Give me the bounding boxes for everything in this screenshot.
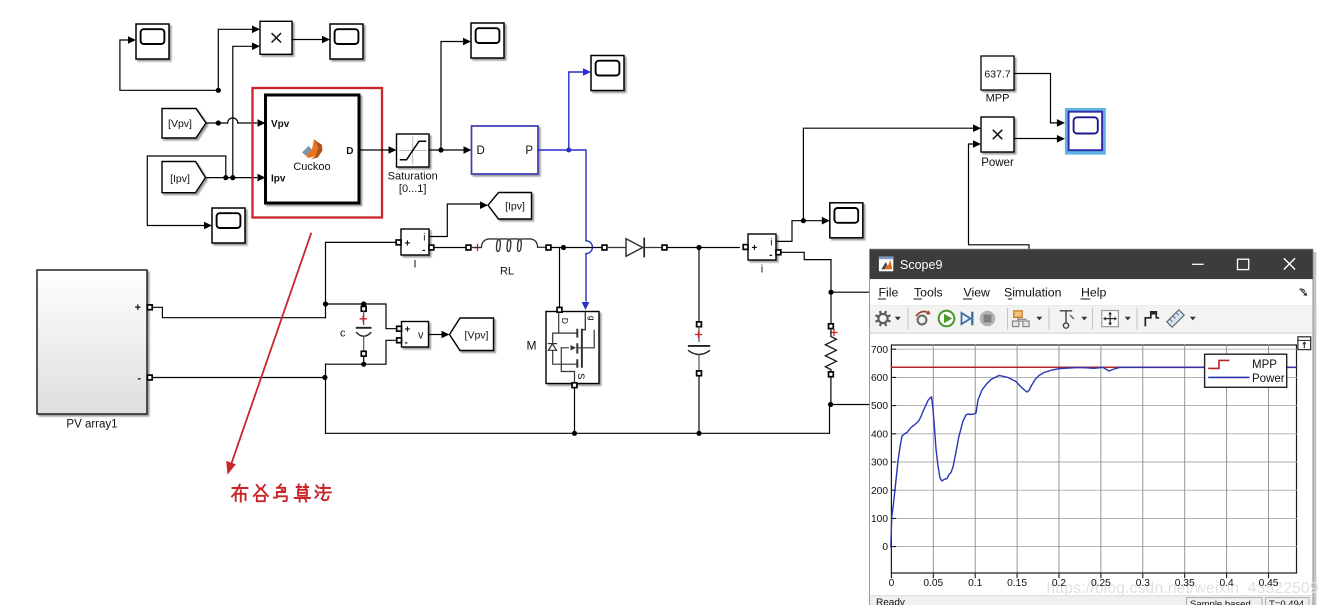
svg-text:i: i: [770, 238, 772, 249]
capacitor c: [363, 304, 365, 306]
wire node down to output capacitor: [698, 248, 700, 322]
svg-text:Ready: Ready: [876, 598, 905, 606]
Scope9 menu bar: [870, 279, 1312, 306]
blue wire P output to gate (with junction): [538, 150, 586, 241]
blue junction node: [566, 148, 571, 153]
wire negative bus down to ground rail: [325, 364, 327, 433]
svg-text:S: S: [575, 373, 586, 379]
svg-text:PV array1: PV array1: [66, 419, 117, 431]
wire duty tap up to scope: [441, 42, 463, 151]
svg-text:Ipv: Ipv: [271, 174, 286, 185]
red annotation arrow (points to Cuckoo algorithm): [230, 234, 311, 467]
red highlight rectangle around Cuckoo block: [253, 88, 383, 218]
wire from node Vpv up to top-left scope: [120, 40, 218, 90]
Scope9 plot panel: [870, 334, 1318, 597]
svg-text:D: D: [346, 146, 353, 157]
From tag [Vpv]: [162, 109, 206, 139]
wire load bottom to ground rail: [830, 405, 831, 434]
wire product output to scope: [292, 39, 322, 41]
x-axis ticks: [891, 573, 1268, 578]
toolbar layout icon: [1014, 311, 1022, 318]
junction node load top: [828, 290, 833, 295]
toolbar trigger icon: [1061, 311, 1072, 323]
svg-text:MPP: MPP: [1252, 359, 1277, 371]
wire [Vpv] to Cuckoo Vpv input (with line hop): [206, 122, 257, 124]
wire Ipv tap to scope (lower-left): [147, 156, 226, 226]
svg-text:400: 400: [871, 429, 888, 440]
wire cap bottom branch to voltage sensor -: [326, 340, 397, 364]
svg-text:0.2: 0.2: [1052, 578, 1066, 589]
PV array1 block: [37, 270, 147, 414]
wire PV+ to input bus: [152, 307, 325, 317]
svg-text:0: 0: [889, 578, 895, 589]
svg-text:[Ipv]: [Ipv]: [505, 201, 525, 213]
saturation block: [397, 134, 430, 167]
svg-text:Sample based: Sample based: [1190, 599, 1251, 605]
junction node cap top: [323, 301, 328, 306]
current measurement block i (output): [748, 234, 776, 260]
wire RL to diode / MOSFET node: [551, 247, 602, 249]
svg-text:D: D: [560, 318, 570, 324]
junction node on Vpv wire: [216, 120, 221, 125]
subsystem block Cuckoo (MATLAB function): [266, 95, 360, 203]
product block Power: [981, 117, 1014, 152]
svg-text:Power: Power: [1252, 373, 1285, 385]
svg-text:100: 100: [871, 514, 888, 525]
display block 637.7 (MPP): [981, 56, 1014, 90]
junction node (Vpv tap): [216, 88, 221, 93]
svg-text:I: I: [413, 259, 416, 271]
PV+ port: [147, 305, 152, 310]
svg-text:D: D: [477, 145, 485, 157]
scope block (PWM scope): [591, 56, 624, 91]
Scope9 title bar: [870, 249, 1313, 279]
wire stub to hidden load measurement lower (behind Scope9): [831, 404, 870, 406]
toolbar stop button: [980, 311, 996, 327]
toolbar run button: [939, 311, 955, 327]
svg-text:[Ipv]: [Ipv]: [170, 173, 190, 185]
y-axis ticks: [891, 349, 895, 546]
svg-text:637.7: 637.7: [984, 69, 1010, 81]
inductor RL (series branch): [434, 247, 466, 249]
svg-text:-: -: [769, 250, 772, 261]
svg-text:v: v: [418, 330, 424, 342]
junction node source/ground: [572, 431, 577, 436]
junction node i-signal: [801, 218, 806, 223]
svg-text:Cuckoo: Cuckoo: [293, 161, 330, 173]
svg-text:M: M: [527, 339, 537, 353]
wire sensor i output to scope and Power: [776, 221, 821, 242]
svg-text:[Vpv]: [Vpv]: [168, 118, 192, 130]
svg-text:Vpv: Vpv: [271, 119, 290, 130]
svg-text:300: 300: [871, 458, 888, 469]
svg-text:Simulation: Simulation: [1004, 286, 1062, 300]
toolbar measurements (ruler) icon: [1167, 310, 1184, 327]
wire cap-top branch to voltage sensor +: [326, 304, 397, 329]
svg-text:T=0.494: T=0.494: [1269, 599, 1304, 605]
diode: [602, 245, 607, 250]
current measurement block I: [401, 229, 429, 255]
MOSFET internal symbol: [553, 313, 577, 365]
toolbar step-forward button: [962, 313, 971, 324]
svg-text:0.05: 0.05: [923, 578, 943, 589]
plot legend: [1205, 354, 1287, 387]
toolbar simulink-block icon: [918, 316, 927, 325]
scope block (Power scope, selected blue): [1065, 108, 1106, 155]
MATLAB logo icon inside Cuckoo: [302, 139, 323, 159]
svg-text:+: +: [752, 243, 758, 254]
Scope9 minimize button: [1193, 263, 1203, 265]
Goto tag [Vpv]: [450, 318, 494, 351]
subsystem block D to P (PWM, blue): [472, 126, 539, 174]
wire sensor - output down to load resistor: [781, 252, 831, 292]
Scope9 title icon: [879, 257, 893, 272]
output capacitor: [697, 322, 702, 327]
wire v output to Goto [Vpv]: [429, 334, 442, 336]
load resistor branch: [830, 292, 832, 324]
svg-text:700: 700: [871, 345, 888, 356]
svg-text:-: -: [422, 245, 425, 256]
scope block (output current scope): [830, 203, 863, 238]
Scope9 close button: [1284, 259, 1294, 269]
junction node output cap top: [696, 245, 701, 250]
Goto tag [Ipv]: [488, 193, 532, 220]
MPP reference curve (red): [891, 366, 1296, 368]
svg-text:Help: Help: [1081, 286, 1106, 300]
toolbar settings gear: [878, 314, 887, 323]
svg-text:View: View: [964, 286, 991, 300]
wire Power output to scope: [1014, 138, 1056, 140]
wire Saturation to D subsystem: [429, 149, 463, 151]
svg-text:i: i: [761, 264, 763, 276]
Scope9 toolbar: [870, 306, 1312, 333]
wire PV- to negative bus: [152, 377, 325, 379]
svg-text:MPP: MPP: [986, 93, 1010, 105]
svg-text:i: i: [423, 233, 425, 244]
svg-text:-: -: [405, 337, 408, 348]
plot axes frame: [891, 345, 1296, 573]
junction nodes on Ipv wire: [223, 175, 228, 180]
wire Cuckoo D output to Saturation: [359, 149, 388, 151]
svg-text:-: -: [137, 373, 141, 385]
svg-text:P: P: [525, 145, 533, 157]
wire diode to output node: [667, 247, 739, 249]
toolbar pan/zoom icon: [1102, 311, 1119, 327]
Power curve (blue): [891, 367, 1296, 546]
scope block (Ipv scope): [212, 208, 245, 243]
toolbar peak-finder icon: [1145, 312, 1158, 326]
svg-text:0.1: 0.1: [968, 578, 982, 589]
svg-text:+: +: [405, 325, 411, 336]
Scope9 maximize button: [1238, 259, 1249, 269]
product block (Vpv x Ipv): [260, 21, 292, 54]
svg-text:+: +: [135, 302, 141, 314]
wire node down to MOSFET drain: [559, 248, 561, 308]
Scope9 window: [870, 249, 1317, 605]
plot vertical gridlines: [933, 345, 1268, 573]
svg-text:600: 600: [871, 373, 888, 384]
voltage measurement block v: [402, 322, 429, 348]
svg-text:[0...1]: [0...1]: [399, 183, 427, 195]
red annotation text (Chinese: Cuckoo algorithm): [232, 484, 331, 501]
scope block (duty-cycle scope, top): [471, 23, 504, 58]
svg-text:RL: RL: [500, 266, 514, 278]
svg-text:c: c: [340, 328, 346, 340]
junction node output cap bottom: [696, 431, 701, 436]
junction node load bottom: [828, 402, 833, 407]
svg-text:[Vpv]: [Vpv]: [465, 330, 489, 342]
svg-text:File: File: [879, 286, 899, 300]
svg-text:Scope9: Scope9: [900, 258, 942, 272]
svg-text:0: 0: [882, 542, 888, 553]
wire MOSFET source to ground rail: [574, 388, 576, 434]
svg-text:0.45: 0.45: [1259, 578, 1279, 589]
svg-text:Power: Power: [981, 157, 1014, 169]
wire PV+ bus up to current sensor: [326, 242, 398, 317]
wire MPP display to scope: [1014, 74, 1056, 123]
svg-text:+: +: [405, 238, 411, 249]
svg-text:500: 500: [871, 401, 888, 412]
junction node PV-: [322, 375, 327, 380]
junction node at capacitor c top: [361, 301, 366, 306]
PV- port: [147, 375, 152, 380]
wire Ipv tap to product bottom input: [233, 46, 252, 177]
scope block (Vpv scope, top-left): [136, 24, 169, 59]
wire [Ipv] to Cuckoo Ipv input: [206, 177, 257, 179]
Scope9 menu pin icon: [1300, 289, 1305, 291]
axes restore icon: [1298, 337, 1311, 350]
wire Vpv tap to product top input: [218, 29, 251, 90]
scope block (product scope): [330, 24, 363, 59]
wire stub to hidden load measurement (behind Scope9): [831, 291, 870, 293]
junction node at capacitor c bottom: [361, 362, 366, 367]
ground rail wire (bottom bus): [326, 432, 830, 434]
svg-text:Tools: Tools: [914, 286, 943, 300]
wire hidden voltage signal up to Power bottom input: [969, 144, 1030, 250]
junction node after Saturation: [438, 147, 443, 152]
svg-text:0.3: 0.3: [1136, 578, 1150, 589]
plot horizontal gridlines: [891, 349, 1296, 546]
svg-text:0.4: 0.4: [1220, 578, 1234, 589]
junction node MOSFET drain tap: [561, 245, 566, 250]
wire sensor i output to Goto [Ipv]: [429, 204, 480, 237]
svg-text:200: 200: [871, 486, 888, 497]
svg-text:0.35: 0.35: [1175, 578, 1195, 589]
MOSFET block M: [546, 312, 599, 384]
svg-text:0.25: 0.25: [1091, 578, 1111, 589]
From tag [Ipv]: [162, 162, 206, 193]
wire i-signal up to Power product: [803, 128, 972, 221]
blue wire tap up to scope: [569, 72, 583, 150]
svg-text:Saturation: Saturation: [388, 171, 438, 183]
svg-text:g: g: [587, 316, 597, 321]
svg-text:0.15: 0.15: [1007, 578, 1027, 589]
Scope9 status bar: [870, 596, 1312, 610]
